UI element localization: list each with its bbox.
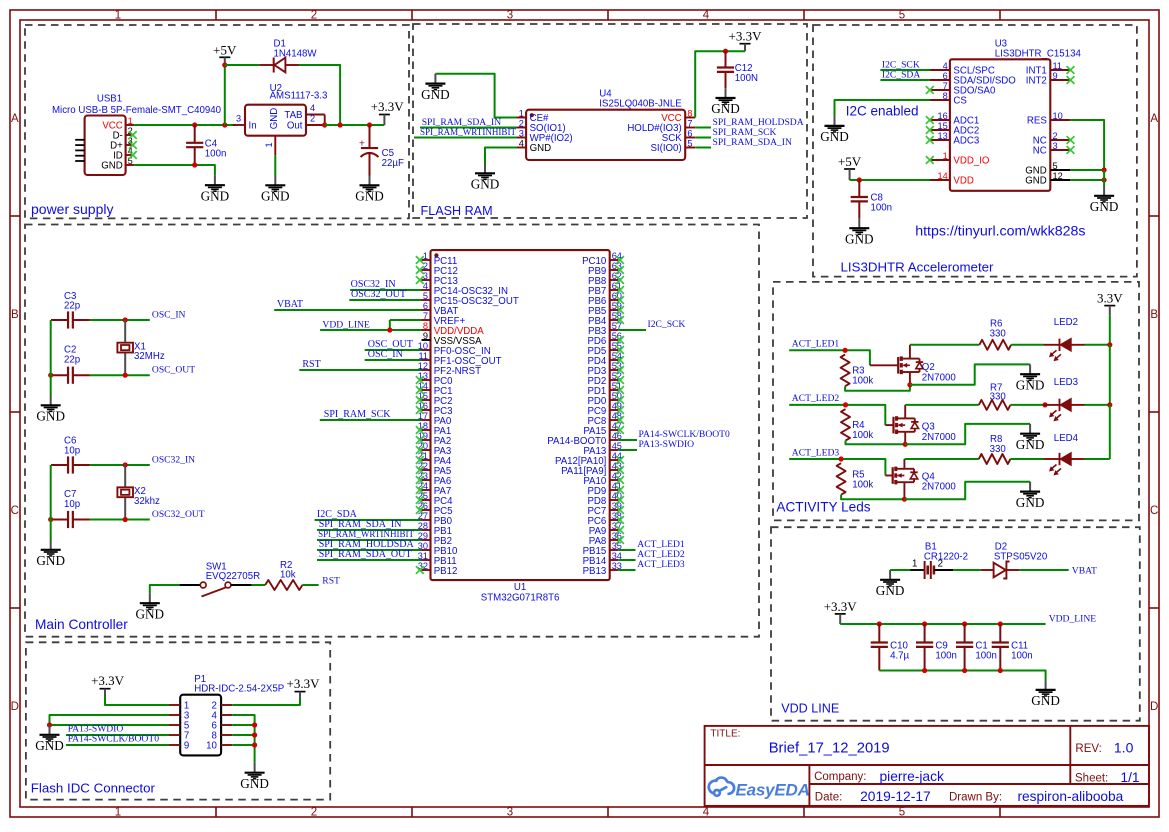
svg-text:ADC3: ADC3 xyxy=(953,136,979,147)
wire C7 to OSC32_OUT node xyxy=(90,519,150,521)
svg-text:22µF: 22µF xyxy=(382,158,404,169)
wire +5V to U3 VDD xyxy=(850,179,931,181)
svg-text:+3.3V: +3.3V xyxy=(91,673,125,688)
wire C3 to OSC_IN node xyxy=(90,319,150,321)
svg-text:330: 330 xyxy=(990,328,1007,339)
svg-text:RST: RST xyxy=(302,359,320,370)
no-connect X marks on U1 unused left pins xyxy=(416,256,424,264)
svg-text:pierre-jack: pierre-jack xyxy=(880,769,945,784)
wire Q4 source to ground xyxy=(904,482,1030,499)
wire OSC32_OUT to U1 xyxy=(349,299,421,301)
svg-text:1: 1 xyxy=(264,142,274,147)
svg-text:+3.3V: +3.3V xyxy=(729,29,763,44)
wire bottom bus of decoupling caps xyxy=(879,671,1045,681)
wire R6 to LED2 xyxy=(1011,344,1043,346)
no-connect X on U3 NC pin2 xyxy=(1067,136,1075,144)
svg-text:REV:: REV: xyxy=(1075,743,1101,755)
wire 3.3V rail down to LED rows xyxy=(1109,315,1111,345)
ground under U2 xyxy=(274,176,276,186)
svg-text:GND: GND xyxy=(1025,176,1047,187)
svg-text:A: A xyxy=(1150,113,1158,125)
no-connect X on U3 INT1 xyxy=(1067,66,1075,74)
wire rail row1 to row2 xyxy=(1109,345,1111,405)
junction C12 top xyxy=(723,49,728,54)
svg-text:ACT_LED3: ACT_LED3 xyxy=(637,559,685,570)
no-connect X on U3 ADC2 xyxy=(926,126,934,134)
junction X2 bottom xyxy=(123,517,128,522)
svg-text:SPI_RAM_SDA_OUT: SPI_RAM_SDA_OUT xyxy=(319,549,412,560)
svg-text:Q4: Q4 xyxy=(922,471,936,482)
svg-text:RST: RST xyxy=(322,576,340,587)
wire Q2 source to ground xyxy=(910,364,1030,384)
svg-text:ACT_LED1: ACT_LED1 xyxy=(792,339,840,350)
svg-text:3: 3 xyxy=(423,271,428,281)
svg-text:100k: 100k xyxy=(852,479,873,490)
wire VDD_LINE to U1 VDD xyxy=(320,329,421,331)
svg-text:6: 6 xyxy=(943,71,948,81)
wire I2C_SDA to U1 xyxy=(315,519,422,521)
svg-text:3: 3 xyxy=(236,113,241,123)
ground under P1 right rail xyxy=(254,763,256,773)
svg-text:LED2: LED2 xyxy=(1054,317,1078,328)
wire R7 to LED3 xyxy=(1010,404,1043,406)
svg-text:GND: GND xyxy=(820,129,849,144)
svg-text:I2C_SDA: I2C_SDA xyxy=(882,70,920,81)
svg-text:100n: 100n xyxy=(935,650,957,661)
wire P1 pin5 to ground node xyxy=(50,724,170,726)
wire I2C_SCK from U1 xyxy=(618,329,646,331)
junction C1 top xyxy=(962,621,967,626)
wire ground to SW1 xyxy=(150,585,180,593)
svg-text:CR1220-2: CR1220-2 xyxy=(924,551,968,562)
wire OSC_OUT to U1 xyxy=(365,349,422,351)
svg-text:EasyEDA: EasyEDA xyxy=(736,780,810,799)
wire D2 cathode to VBAT stub xyxy=(1019,569,1068,571)
ground vdd line xyxy=(1045,680,1047,690)
svg-text:NC: NC xyxy=(1033,146,1047,157)
svg-text:C: C xyxy=(1150,505,1158,517)
svg-text:GND: GND xyxy=(355,189,384,204)
svg-text:LED3: LED3 xyxy=(1054,377,1078,388)
ground at battery minus xyxy=(889,570,891,580)
svg-text:10p: 10p xyxy=(64,499,80,510)
wire U2 GND pin to ground xyxy=(274,155,276,175)
svg-text:6: 6 xyxy=(423,301,428,311)
capacitor C4 100n xyxy=(194,125,196,143)
wire RST to U1 xyxy=(299,369,421,371)
svg-text:OSC_IN: OSC_IN xyxy=(152,309,186,320)
svg-text:7: 7 xyxy=(423,311,428,321)
svg-text:10p: 10p xyxy=(64,446,80,457)
wire P1 pin7 xyxy=(66,734,169,736)
wire C6 to OSC32_IN node xyxy=(90,464,150,466)
svg-text:6: 6 xyxy=(687,128,692,138)
svg-text:4: 4 xyxy=(943,61,948,71)
svg-text:10: 10 xyxy=(206,741,217,752)
svg-text:GND: GND xyxy=(876,583,905,598)
svg-text:Brief_17_12_2019: Brief_17_12_2019 xyxy=(769,741,890,757)
svg-text:3: 3 xyxy=(507,10,513,22)
svg-text:2: 2 xyxy=(1053,131,1058,141)
resistor R5 100k xyxy=(837,463,846,495)
junction R4 top xyxy=(843,402,848,407)
no-connect X on U3 SDO/SA0 xyxy=(926,86,934,94)
wire ACT_LED3 from U1 xyxy=(618,569,635,571)
svg-text:ACT_LED2: ACT_LED2 xyxy=(792,393,840,404)
ground under C12 xyxy=(725,88,727,98)
led LED4 xyxy=(1044,458,1060,460)
svg-text:GND: GND xyxy=(201,188,230,203)
svg-text:GND: GND xyxy=(261,189,290,204)
svg-text:+5V: +5V xyxy=(838,154,862,169)
ground at SW1 xyxy=(149,593,151,603)
title block xyxy=(705,726,1149,806)
junction C9 top xyxy=(922,621,927,626)
svg-text:B: B xyxy=(11,309,19,321)
junction before LED3 xyxy=(1042,402,1047,407)
wire R8 to LED4 xyxy=(1010,458,1043,460)
svg-text:OSC_OUT: OSC_OUT xyxy=(152,365,195,376)
wire R2 to RST stub xyxy=(302,584,318,586)
svg-text:PB13: PB13 xyxy=(583,566,607,577)
wire OSC_IN to U1 xyxy=(365,359,422,361)
junction C8 top xyxy=(857,177,862,182)
junction C7 left xyxy=(48,517,53,522)
svg-text:PA14-SWCLK/BOOT0: PA14-SWCLK/BOOT0 xyxy=(68,734,160,745)
junction R5 top xyxy=(839,456,844,461)
svg-text:2: 2 xyxy=(310,113,315,123)
ground left of P1 xyxy=(49,725,51,735)
svg-text:22p: 22p xyxy=(64,355,80,366)
svg-text:OSC32_OUT: OSC32_OUT xyxy=(152,509,205,520)
section box power supply xyxy=(25,25,409,218)
junction C11 bottom xyxy=(998,668,1003,673)
svg-text:2: 2 xyxy=(311,807,317,819)
svg-text:1.0: 1.0 xyxy=(1114,740,1134,756)
ground at U3 CS xyxy=(834,116,836,126)
svg-text:100n: 100n xyxy=(975,650,997,661)
junction D1 branch on output wire xyxy=(338,122,343,127)
svg-text:1: 1 xyxy=(115,10,121,22)
svg-text:AMS1117-3.3: AMS1117-3.3 xyxy=(270,91,328,102)
wire P1 pin4 to right ground rail xyxy=(232,715,254,763)
svg-text:10k: 10k xyxy=(280,570,296,581)
svg-text:2: 2 xyxy=(423,261,428,271)
svg-text:3: 3 xyxy=(507,807,513,819)
svg-text:4: 4 xyxy=(519,138,524,148)
capacitor C9 100n xyxy=(924,624,926,643)
capacitor C6 10p xyxy=(51,464,68,466)
wire P1 pin9 xyxy=(66,744,169,746)
transistor Q4 2N7000 xyxy=(885,475,892,477)
svg-text:CS: CS xyxy=(953,96,967,107)
svg-text:Drawn By:: Drawn By: xyxy=(949,791,1002,803)
ground under U4 GND pin xyxy=(484,164,486,174)
svg-text:C: C xyxy=(11,505,19,517)
wire ACT_LED3 into leds section xyxy=(789,459,885,476)
svg-text:ACTIVITY Leds: ACTIVITY Leds xyxy=(776,500,870,515)
svg-text:SI(IO0): SI(IO0) xyxy=(650,143,681,154)
svg-text:3: 3 xyxy=(1053,141,1058,151)
svg-text:VDD_IO: VDD_IO xyxy=(953,156,990,167)
capacitor C12 100N xyxy=(725,51,727,67)
svg-text:7: 7 xyxy=(687,118,692,128)
svg-text:VDD_LINE: VDD_LINE xyxy=(1049,614,1097,625)
svg-text:1: 1 xyxy=(128,116,133,126)
svg-text:GND: GND xyxy=(1090,199,1119,214)
ground row3 xyxy=(1029,482,1031,492)
resistor R3 100k xyxy=(841,355,850,387)
svg-text:https://tinyurl.com/wkk828s: https://tinyurl.com/wkk828s xyxy=(915,224,1085,240)
svg-text:GND: GND xyxy=(1031,693,1060,708)
junction Q2 source xyxy=(907,382,912,387)
svg-text:GND: GND xyxy=(240,776,269,791)
svg-text:100N: 100N xyxy=(735,73,758,84)
svg-text:1: 1 xyxy=(912,559,917,570)
wire ACT_LED2 into leds section xyxy=(789,405,885,425)
svg-text:Main Controller: Main Controller xyxy=(35,617,128,632)
resistor R4 100k xyxy=(841,409,850,441)
wire battery minus xyxy=(890,569,910,571)
svg-text:VBAT: VBAT xyxy=(277,299,303,310)
svg-text:GND: GND xyxy=(530,143,552,154)
svg-text:INT2: INT2 xyxy=(1026,76,1047,87)
svg-text:2: 2 xyxy=(519,118,524,128)
wire C6/C7 left bus to ground xyxy=(50,465,52,540)
capacitor C5 22uF polarized xyxy=(369,125,371,148)
svg-text:1: 1 xyxy=(519,108,524,118)
wire +5V down to VCC wire xyxy=(224,65,226,125)
junction X1 bottom xyxy=(123,373,128,378)
ground upper-left of U4 xyxy=(434,74,436,84)
no-connect X on U3 INT2 xyxy=(1067,76,1075,84)
wire U3 RES to ground rail right xyxy=(1070,120,1104,170)
svg-text:4.7µ: 4.7µ xyxy=(890,650,909,661)
mcu U1 STM32G071R8T6 xyxy=(431,250,610,580)
wire U4 SCK stub xyxy=(695,137,711,139)
junction rail row2 xyxy=(1107,402,1112,407)
section box Main Controller xyxy=(25,225,759,637)
svg-text:5: 5 xyxy=(899,10,905,22)
wire U4 CE# to ground upper-left xyxy=(435,74,516,118)
svg-text:2N7000: 2N7000 xyxy=(922,432,957,443)
wire +3.3V along VDD_LINE xyxy=(840,623,1045,625)
wire R5 bottom to Q4 source xyxy=(841,495,904,500)
svg-text:EVQ22705R: EVQ22705R xyxy=(206,571,260,582)
svg-text:100k: 100k xyxy=(852,430,873,441)
svg-text:32khz: 32khz xyxy=(134,496,160,507)
wire D1 cathode to +3.3V output node xyxy=(299,65,340,125)
svg-text:1/1: 1/1 xyxy=(1120,770,1139,785)
wire +3.3V to P1 pin2 xyxy=(232,698,300,705)
svg-text:15: 15 xyxy=(937,121,947,131)
svg-text:8: 8 xyxy=(943,91,948,101)
junction idc pin8 xyxy=(252,732,257,737)
svg-text:GND: GND xyxy=(1016,495,1045,510)
svg-text:A: A xyxy=(11,113,19,125)
svg-text:1N4148W: 1N4148W xyxy=(274,48,318,59)
no-connect X on USB1 pin 2 xyxy=(129,131,137,139)
wire Q2 drain to R6 xyxy=(910,344,980,346)
wire C2 to OSC_OUT node xyxy=(90,374,150,376)
no-connect X marks on U1 unused right pins xyxy=(616,256,624,264)
wire P1 pin3 to ground node xyxy=(50,715,170,725)
svg-text:In: In xyxy=(249,121,257,132)
svg-text:TITLE:: TITLE: xyxy=(710,728,740,739)
svg-text:1: 1 xyxy=(943,151,948,161)
junction C1 bottom xyxy=(962,668,967,673)
svg-text:D: D xyxy=(11,701,19,713)
svg-text:22p: 22p xyxy=(64,301,80,312)
led LED3 xyxy=(1044,404,1060,406)
svg-text:FLASH RAM: FLASH RAM xyxy=(421,204,493,218)
svg-text:GND: GND xyxy=(101,161,123,172)
svg-text:5: 5 xyxy=(1053,161,1058,171)
svg-text:PA13-SWDIO: PA13-SWDIO xyxy=(639,439,695,450)
svg-text:GND: GND xyxy=(1016,437,1045,452)
ground under USB1 GND wire xyxy=(214,175,216,185)
junction GND pin5 rail xyxy=(1102,167,1107,172)
svg-text:2: 2 xyxy=(311,10,317,22)
svg-text:9: 9 xyxy=(184,741,189,752)
svg-text:32MHz: 32MHz xyxy=(134,351,165,362)
wire SPI_RAM_HOLDSDA to U1 xyxy=(317,549,422,551)
svg-text:GND: GND xyxy=(36,553,65,568)
svg-text:4: 4 xyxy=(423,281,428,291)
svg-text:SPI_RAM_WRTINHIBIT: SPI_RAM_WRTINHIBIT xyxy=(420,127,516,138)
wire +3.3V to P1 pin1 xyxy=(105,696,169,705)
junction Q4 source xyxy=(902,497,907,502)
svg-text:16: 16 xyxy=(937,111,947,121)
svg-text:GND: GND xyxy=(269,108,280,130)
junction GND pin12 rail xyxy=(1102,177,1107,182)
wire rail down to ground xyxy=(1103,170,1105,186)
wire C3/C2 left bus to ground xyxy=(50,320,52,396)
no-connect X on U3 VDD_IO xyxy=(926,156,934,164)
ground under C3/C2 xyxy=(50,396,52,406)
section box LIS3DHTR Accelerometer xyxy=(813,25,1137,277)
wire SPI_RAM_SDA_OUT to U1 xyxy=(317,559,422,561)
svg-text:HDR-IDC-2.54-2X5P: HDR-IDC-2.54-2X5P xyxy=(194,684,284,695)
capacitor C11 100n xyxy=(999,624,1001,643)
svg-text:SPI_RAM_SDA_IN: SPI_RAM_SDA_IN xyxy=(713,137,793,148)
svg-text:2019-12-17: 2019-12-17 xyxy=(860,789,931,804)
svg-text:IS25LQ040B-JNLE: IS25LQ040B-JNLE xyxy=(599,99,682,110)
svg-text:4: 4 xyxy=(703,10,710,22)
wire Q3 source to ground xyxy=(905,424,1030,444)
wire U3 CS to ground xyxy=(835,100,931,116)
wire U3 GND pin5 to rail xyxy=(1070,169,1104,171)
svg-text:100k: 100k xyxy=(852,375,873,386)
wire LED2 to rail xyxy=(1085,344,1110,346)
svg-text:respiron-alibooba: respiron-alibooba xyxy=(1018,789,1124,804)
ground under C6/C7 xyxy=(50,540,52,550)
junction C9 bottom xyxy=(922,668,927,673)
capacitor C8 100n xyxy=(858,180,860,197)
svg-text:I2C enabled: I2C enabled xyxy=(846,104,919,119)
svg-text:8: 8 xyxy=(423,321,428,331)
wire battery plus to D2 xyxy=(953,569,981,571)
junction idc pin6 xyxy=(252,722,257,727)
transistor Q2 2N7000 xyxy=(870,364,898,366)
svg-text:2N7000: 2N7000 xyxy=(922,482,957,493)
junction VREF+/VDD tie xyxy=(387,327,392,332)
section box FLASH RAM xyxy=(413,24,807,218)
capacitor C10 4.7u xyxy=(878,624,880,643)
wire LED3 to rail xyxy=(1085,404,1110,406)
svg-text:LED4: LED4 xyxy=(1054,433,1079,444)
wire R3 bottom to Q2 source xyxy=(845,385,910,391)
wire VCC from USB1 pin1 to U2 In xyxy=(134,124,236,126)
svg-text:PB12: PB12 xyxy=(434,566,458,577)
junction R3 top xyxy=(843,348,848,353)
svg-text:12: 12 xyxy=(1053,171,1063,181)
transistor Q3 2N7000 xyxy=(885,424,893,426)
svg-text:11: 11 xyxy=(1053,61,1063,71)
ground under C8 xyxy=(858,218,860,228)
svg-text:Q3: Q3 xyxy=(922,422,935,433)
wire SPI_RAM_SDA_IN to U1 xyxy=(317,529,422,531)
svg-text:+5V: +5V xyxy=(213,42,237,57)
svg-text:14: 14 xyxy=(937,171,947,181)
svg-text:1: 1 xyxy=(423,251,428,261)
wire GND from USB1 pin5 to GND via C4 bottom xyxy=(134,165,215,175)
ground row2 xyxy=(1029,424,1031,434)
svg-text:GND: GND xyxy=(36,409,65,424)
svg-text:5: 5 xyxy=(899,807,905,819)
wire SPI_RAM_SCK to U1 xyxy=(320,419,422,421)
junction +5V node xyxy=(222,62,227,67)
svg-text:TAB: TAB xyxy=(284,110,302,121)
svg-text:1: 1 xyxy=(115,807,121,819)
svg-text:10: 10 xyxy=(1053,111,1063,121)
wire VBAT to U1 xyxy=(274,309,421,311)
section box Flash IDC Connector xyxy=(26,642,330,799)
svg-text:GND: GND xyxy=(1016,377,1045,392)
svg-text:B: B xyxy=(1150,309,1158,321)
svg-text:OSC_IN: OSC_IN xyxy=(368,349,403,360)
svg-text:Micro USB-B 5P-Female-SMT_C409: Micro USB-B 5P-Female-SMT_C40940 xyxy=(52,105,222,116)
section box VDD LINE xyxy=(771,527,1140,721)
crystal X2 32khz xyxy=(124,465,126,487)
svg-text:ACT_LED3: ACT_LED3 xyxy=(792,447,840,458)
svg-text:VDD: VDD xyxy=(953,176,973,187)
ground right of U3 xyxy=(1103,186,1105,196)
wire PA14-SWCLK/BOOT0 from U1 xyxy=(618,439,637,441)
svg-text:Company:: Company: xyxy=(814,771,866,783)
no-connect X on U3 NC pin3 xyxy=(1067,146,1075,154)
wire OSC32_IN to U1 xyxy=(350,289,421,291)
wire U2 Out to +3.3V flag xyxy=(325,124,385,126)
wire SPI_RAM_WRTINHIBIT to U1 xyxy=(317,539,422,541)
wire ACT_LED1 from U1 xyxy=(618,549,635,551)
svg-text:5: 5 xyxy=(423,291,428,301)
svg-text:OSC32_OUT: OSC32_OUT xyxy=(351,289,406,300)
easyeda logo xyxy=(709,778,734,796)
wire ACT_LED2 from U1 xyxy=(618,559,635,561)
junction X2 top xyxy=(123,462,128,467)
wire PA13-SWDIO from U1 xyxy=(618,449,637,451)
junction U2 Out / TAB xyxy=(322,122,327,127)
svg-text:+3.3V: +3.3V xyxy=(824,599,858,614)
wire R4 bottom to Q3 source xyxy=(846,441,906,445)
wire Q3 drain to R7 xyxy=(905,404,979,406)
svg-text:STM32G071R8T6: STM32G071R8T6 xyxy=(481,592,560,603)
wire I2C_SCK to U3 SCL/SPC xyxy=(880,69,930,71)
wire U4 SO stub xyxy=(420,127,516,129)
no-connect X on USB1 pin 4 xyxy=(129,151,137,159)
junction at +5V drop on VCC wire xyxy=(222,122,227,127)
